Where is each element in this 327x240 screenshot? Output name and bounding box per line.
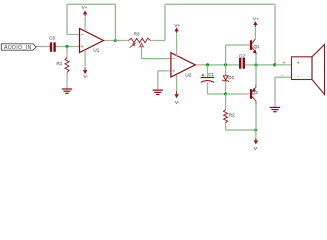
svg-text:C3: C3 [49, 35, 55, 40]
svg-text:R1: R1 [56, 61, 62, 66]
svg-text:V+: V+ [174, 23, 180, 28]
svg-text:D1: D1 [228, 75, 234, 80]
svg-text:AUDIO_IN: AUDIO_IN [4, 45, 32, 51]
svg-text:R3: R3 [134, 32, 140, 37]
svg-text:C2: C2 [239, 53, 245, 58]
svg-text:V+: V+ [253, 16, 259, 21]
svg-text:+: + [283, 61, 285, 65]
svg-text:V-: V- [175, 100, 180, 105]
svg-text:V-: V- [254, 146, 259, 151]
svg-text:C1: C1 [208, 72, 214, 77]
svg-text:R2: R2 [229, 113, 235, 118]
svg-text:U2: U2 [185, 73, 192, 79]
svg-text:U1: U1 [93, 48, 100, 54]
svg-text:Q1: Q1 [253, 44, 260, 49]
svg-text:V-: V- [84, 74, 89, 79]
svg-text:+: + [297, 60, 300, 65]
svg-text:Q2: Q2 [252, 90, 259, 95]
svg-text:V+: V+ [82, 5, 88, 10]
svg-text:-: - [298, 74, 300, 79]
